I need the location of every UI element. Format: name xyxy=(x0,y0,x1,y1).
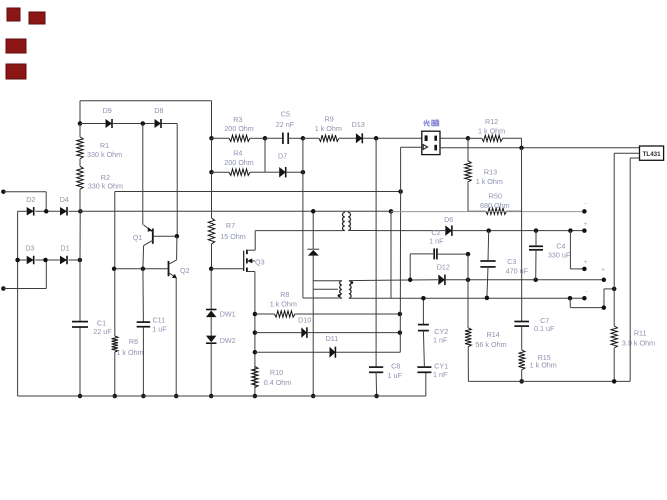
capacitor C11 xyxy=(137,315,168,333)
svg-text:330 k Ohm: 330 k Ohm xyxy=(87,150,122,159)
wire primary ground rail xyxy=(18,395,426,397)
svg-text:1 k Ohm: 1 k Ohm xyxy=(476,177,503,186)
svg-text:R14: R14 xyxy=(487,330,500,339)
resistor R7 xyxy=(208,218,245,244)
svg-text:680 Ohm: 680 Ohm xyxy=(480,201,510,210)
svg-text:1 k Ohm: 1 k Ohm xyxy=(478,127,505,136)
wire xyxy=(79,124,81,138)
node xyxy=(209,267,214,272)
wire xyxy=(255,332,301,334)
wire xyxy=(210,317,212,336)
transformer T2 primary xyxy=(340,281,342,299)
diode D10 xyxy=(298,316,311,338)
node xyxy=(519,379,524,384)
wire xyxy=(302,138,304,172)
svg-text:D13: D13 xyxy=(352,120,365,129)
svg-text:C5: C5 xyxy=(281,109,290,118)
node output terminal 2 xyxy=(582,228,587,233)
resistor R13 xyxy=(465,161,503,186)
wire xyxy=(153,235,177,237)
resistor R11 xyxy=(611,326,655,348)
diode D11 xyxy=(326,334,339,358)
wire xyxy=(210,269,212,310)
optocoupler U1 xyxy=(422,120,440,155)
capacitor C4 xyxy=(529,242,571,260)
svg-text:+: + xyxy=(584,260,588,266)
wire xyxy=(440,137,468,139)
node T2 phase dot xyxy=(351,281,354,284)
wire xyxy=(175,278,177,396)
wire xyxy=(303,297,342,299)
node xyxy=(175,234,180,239)
diode D1 xyxy=(60,243,70,264)
node xyxy=(486,228,491,233)
svg-text:R11: R11 xyxy=(634,329,647,338)
wire source column xyxy=(254,272,256,397)
wire xyxy=(255,351,330,353)
wire left bridge vertical xyxy=(17,211,19,396)
red mark 3 xyxy=(6,39,26,53)
wire xyxy=(487,267,488,298)
node xyxy=(141,121,146,126)
wire xyxy=(176,236,178,260)
node xyxy=(398,189,403,194)
svg-text:22 nF: 22 nF xyxy=(276,120,295,129)
node xyxy=(174,394,179,399)
wire xyxy=(142,246,145,269)
wire xyxy=(18,210,27,212)
wire xyxy=(363,137,422,139)
node T2 phase dot xyxy=(338,294,341,297)
svg-text:D2: D2 xyxy=(26,195,35,204)
wire xyxy=(630,158,639,381)
wire gate link xyxy=(211,268,244,270)
svg-text:C3: C3 xyxy=(507,257,516,266)
wire xyxy=(3,260,46,289)
node xyxy=(311,394,316,399)
node xyxy=(374,136,379,141)
svg-text:R7: R7 xyxy=(226,221,235,230)
wire xyxy=(212,171,230,173)
wire xyxy=(423,331,424,368)
node xyxy=(374,394,379,399)
wire xyxy=(114,352,116,396)
node xyxy=(253,312,258,317)
node xyxy=(209,136,214,141)
diode D13 xyxy=(352,120,365,144)
node xyxy=(602,278,607,283)
diode D9 xyxy=(103,106,112,128)
wire top rail xyxy=(80,101,212,124)
capacitor C8 xyxy=(369,361,402,380)
wire xyxy=(265,137,283,139)
wire drain xyxy=(254,231,256,251)
svg-text:R50: R50 xyxy=(489,192,502,201)
resistor R12 xyxy=(478,117,505,142)
wire xyxy=(521,370,523,382)
diode D7 xyxy=(278,151,287,177)
node xyxy=(612,287,617,292)
wire drain rail xyxy=(255,230,345,232)
wire xyxy=(409,254,411,280)
wire gray sense line xyxy=(391,211,584,213)
zener DW2 xyxy=(206,336,236,345)
wire xyxy=(613,289,615,326)
svg-text:330 uF: 330 uF xyxy=(548,250,571,259)
regulator TL431 xyxy=(640,146,664,160)
node xyxy=(141,394,146,399)
svg-text:D6: D6 xyxy=(444,215,453,224)
wire xyxy=(313,280,342,282)
svg-text:C1: C1 xyxy=(97,318,106,327)
capacitor CY2 xyxy=(418,325,448,345)
node xyxy=(15,258,20,263)
node bridge + xyxy=(78,209,83,214)
wire secondary plus rail xyxy=(376,230,440,232)
node xyxy=(408,278,413,283)
wire xyxy=(467,138,469,161)
svg-text:1 nF: 1 nF xyxy=(429,236,444,245)
wire xyxy=(303,137,319,139)
wire xyxy=(250,138,265,172)
svg-text:1 nF: 1 nF xyxy=(433,370,448,379)
svg-text:200 Ohm: 200 Ohm xyxy=(224,124,254,133)
svg-text:R4: R4 xyxy=(233,148,242,157)
wire xyxy=(142,269,145,322)
node xyxy=(485,296,490,301)
node xyxy=(466,252,471,257)
wire xyxy=(210,343,212,396)
diode D4 xyxy=(60,195,69,216)
wire TL431 ref line xyxy=(440,147,640,149)
svg-text:1 k Ohm: 1 k Ohm xyxy=(315,124,342,133)
wire xyxy=(211,244,213,269)
node xyxy=(301,136,306,141)
svg-text:Q1: Q1 xyxy=(133,233,143,242)
wire xyxy=(467,254,469,328)
svg-text:D3: D3 xyxy=(25,243,34,252)
wire xyxy=(348,230,376,232)
wire xyxy=(69,259,80,261)
diode D6 xyxy=(444,215,453,236)
wire xyxy=(487,231,490,261)
svg-text:D11: D11 xyxy=(326,334,339,343)
node xyxy=(141,267,146,272)
svg-text:22 uF: 22 uF xyxy=(93,327,112,336)
node xyxy=(421,296,426,301)
wire xyxy=(255,313,275,315)
wire bridge output column xyxy=(79,211,81,396)
svg-text:Q3: Q3 xyxy=(255,257,265,266)
wire xyxy=(113,123,155,125)
wire xyxy=(349,279,438,282)
wire xyxy=(3,192,46,212)
node AC input 1 xyxy=(1,189,6,194)
wire xyxy=(18,259,27,261)
diode D2 xyxy=(26,195,35,216)
node output terminal 1 xyxy=(582,209,587,214)
wire xyxy=(345,211,348,212)
wire xyxy=(336,333,400,353)
svg-text:R1: R1 xyxy=(100,141,109,150)
resistor R6 xyxy=(112,336,144,357)
wire xyxy=(410,253,434,255)
wire opto drive column xyxy=(399,192,401,333)
svg-text:1 k Ohm: 1 k Ohm xyxy=(270,300,297,309)
svg-text:DW1: DW1 xyxy=(220,310,236,319)
transformer T1 primary xyxy=(343,212,345,230)
wire xyxy=(535,231,537,247)
node xyxy=(534,228,539,233)
wire xyxy=(312,256,314,396)
svg-text:R3: R3 xyxy=(233,115,242,124)
svg-text:DW2: DW2 xyxy=(220,336,236,345)
red mark 2 xyxy=(29,12,45,24)
wire xyxy=(211,101,213,139)
svg-text:D9: D9 xyxy=(103,106,112,115)
svg-text:1 k Ohm: 1 k Ohm xyxy=(116,348,143,357)
wire base rail xyxy=(114,268,168,270)
node xyxy=(209,394,214,399)
wire xyxy=(211,172,213,218)
svg-text:C8: C8 xyxy=(391,361,400,370)
wire xyxy=(79,189,81,211)
wire xyxy=(422,298,424,324)
wire xyxy=(211,138,213,172)
wire xyxy=(79,159,81,167)
capacitor C2 xyxy=(429,228,444,259)
svg-text:C11: C11 xyxy=(152,315,165,324)
zener DW1 xyxy=(206,310,236,319)
wire xyxy=(142,124,144,225)
wire xyxy=(288,137,303,139)
node xyxy=(113,394,118,399)
svg-text:56 k Ohm: 56 k Ohm xyxy=(475,340,506,349)
svg-text:0.4 Ohm: 0.4 Ohm xyxy=(264,378,292,387)
node xyxy=(602,305,607,310)
wire xyxy=(212,137,230,139)
node xyxy=(78,258,83,263)
wire xyxy=(286,171,303,173)
wire xyxy=(468,210,486,212)
wire xyxy=(308,332,400,334)
wire xyxy=(570,231,584,269)
wire xyxy=(503,138,522,148)
wire xyxy=(35,210,60,212)
transformer T1 secondary xyxy=(348,212,350,230)
wire xyxy=(535,250,537,280)
wire xyxy=(375,372,378,396)
svg-text:R13: R13 xyxy=(484,167,497,176)
wire xyxy=(313,288,338,290)
wire xyxy=(440,230,584,232)
node xyxy=(311,209,316,214)
svg-text:-: - xyxy=(586,289,588,295)
diode D12 xyxy=(437,262,450,285)
resistor R9 xyxy=(315,114,342,141)
node AC input 2 xyxy=(1,286,6,291)
wire xyxy=(445,279,604,281)
node xyxy=(253,394,258,399)
wire xyxy=(401,147,422,191)
transformer T2 secondary xyxy=(349,281,351,299)
svg-text:470 uF: 470 uF xyxy=(506,267,529,276)
svg-text:TL431: TL431 xyxy=(643,151,661,158)
svg-text:15 Ohm: 15 Ohm xyxy=(220,232,246,241)
svg-text:1 uF: 1 uF xyxy=(388,371,403,380)
svg-text:D10: D10 xyxy=(298,316,311,325)
wire xyxy=(507,210,522,212)
red mark 4 xyxy=(6,64,26,79)
resistor R14 xyxy=(465,328,507,349)
wire xyxy=(265,171,279,173)
svg-text:Q2: Q2 xyxy=(180,266,190,275)
node xyxy=(519,146,524,151)
node xyxy=(301,170,306,175)
svg-text:-: - xyxy=(602,300,604,306)
wire xyxy=(614,153,639,289)
node xyxy=(533,278,538,283)
wire secondary return rail xyxy=(349,297,585,299)
wire xyxy=(570,289,614,308)
capacitor C7 xyxy=(514,316,555,333)
resistor R50 xyxy=(480,192,510,215)
terminal polarity marks xyxy=(584,201,606,306)
diode D3 xyxy=(25,243,34,264)
node xyxy=(78,121,83,126)
node output terminal 3 xyxy=(582,267,587,272)
wire xyxy=(390,211,392,298)
wire xyxy=(437,253,468,255)
wire xyxy=(114,269,116,336)
wire xyxy=(425,372,427,396)
node xyxy=(398,312,403,317)
svg-text:D7: D7 xyxy=(278,151,287,160)
svg-text:R12: R12 xyxy=(485,117,498,126)
wire R12 R50 column xyxy=(521,148,523,322)
capacitor CY1 xyxy=(417,361,448,379)
transistor Q1 xyxy=(133,225,153,246)
svg-text:-: - xyxy=(585,201,587,207)
wire D7 column down xyxy=(302,172,304,298)
svg-text:D4: D4 xyxy=(60,195,69,204)
svg-text:+: + xyxy=(584,222,588,228)
wire xyxy=(162,124,177,237)
capacitor C5 xyxy=(276,109,295,144)
wire xyxy=(142,327,144,396)
svg-text:0.1 uF: 0.1 uF xyxy=(534,324,555,333)
node xyxy=(43,258,48,263)
svg-text:1 k Ohm: 1 k Ohm xyxy=(530,360,557,369)
wire secondary ground rail xyxy=(468,380,630,382)
svg-text:1 uF: 1 uF xyxy=(152,324,167,333)
wire xyxy=(312,211,314,249)
node xyxy=(209,170,214,175)
node xyxy=(253,330,258,335)
wire xyxy=(521,326,523,350)
resistor R15 xyxy=(519,350,557,370)
node xyxy=(112,267,117,272)
node xyxy=(466,278,471,283)
resistor R1 xyxy=(77,137,122,159)
transistor Q2 xyxy=(169,260,190,278)
node xyxy=(253,350,258,355)
wire xyxy=(375,138,377,367)
wire +V rail xyxy=(80,210,391,212)
svg-text:R8: R8 xyxy=(280,290,289,299)
svg-text:330 k Ohm: 330 k Ohm xyxy=(88,181,123,190)
node xyxy=(568,296,573,301)
node output terminal 4 xyxy=(582,296,587,301)
diode D8 xyxy=(154,106,163,128)
wire xyxy=(295,313,400,315)
svg-text:R9: R9 xyxy=(325,114,334,123)
node xyxy=(568,228,573,233)
wire xyxy=(468,137,482,139)
capacitor C1 xyxy=(72,318,112,336)
svg-text:3.9 k Ohm: 3.9 k Ohm xyxy=(622,338,655,347)
resistor R2 xyxy=(77,166,123,190)
diode D5 xyxy=(307,249,319,255)
transistor Q3 xyxy=(244,250,265,272)
wire xyxy=(80,123,105,125)
resistor R3 xyxy=(224,115,254,142)
wire xyxy=(250,137,265,139)
wire xyxy=(467,182,469,211)
wire feedback rail xyxy=(115,191,401,193)
capacitor C3 xyxy=(480,257,528,275)
svg-text:200 Ohm: 200 Ohm xyxy=(224,158,254,167)
resistor R10 xyxy=(252,367,292,388)
node xyxy=(44,209,49,214)
wire xyxy=(467,347,469,382)
svg-text:D1: D1 xyxy=(60,243,69,252)
svg-text:+: + xyxy=(601,268,605,274)
resistor R8 xyxy=(270,290,297,317)
wire xyxy=(339,137,356,139)
wire xyxy=(114,192,116,269)
resistor R4 xyxy=(224,148,254,175)
node xyxy=(78,394,83,399)
node xyxy=(263,136,268,141)
node xyxy=(398,330,403,335)
svg-text:R10: R10 xyxy=(270,368,283,377)
wire xyxy=(69,210,81,212)
wire xyxy=(613,348,615,381)
node xyxy=(389,209,394,214)
wire xyxy=(35,259,60,261)
node xyxy=(612,379,617,384)
red mark 1 xyxy=(7,8,20,21)
svg-text:1 nF: 1 nF xyxy=(433,335,448,344)
node xyxy=(466,136,471,141)
svg-text:R6: R6 xyxy=(129,337,138,346)
svg-text:D12: D12 xyxy=(437,262,450,271)
svg-text:D8: D8 xyxy=(154,106,163,115)
